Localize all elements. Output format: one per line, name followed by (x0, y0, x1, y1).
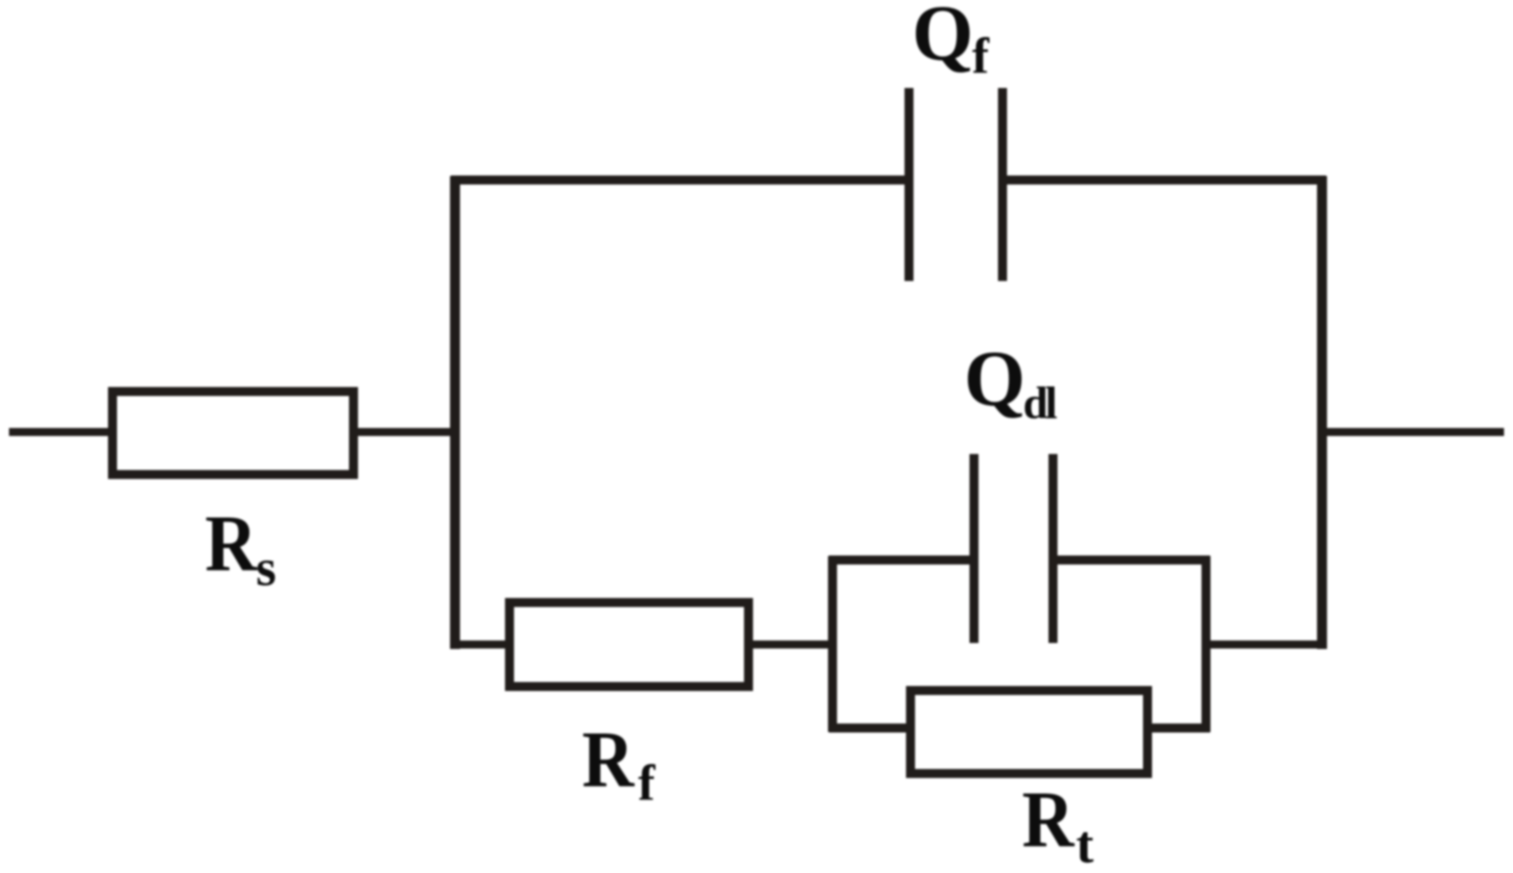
svg-text:Q: Q (964, 336, 1025, 423)
svg-text:f: f (638, 756, 656, 812)
svg-text:dl: dl (1023, 378, 1057, 428)
svg-text:t: t (1076, 816, 1094, 873)
svg-text:R: R (582, 715, 635, 805)
svg-text:s: s (256, 540, 276, 597)
svg-text:Q: Q (912, 0, 973, 78)
svg-text:f: f (972, 29, 990, 85)
svg-text:R: R (1022, 775, 1075, 865)
svg-text:R: R (205, 499, 258, 589)
